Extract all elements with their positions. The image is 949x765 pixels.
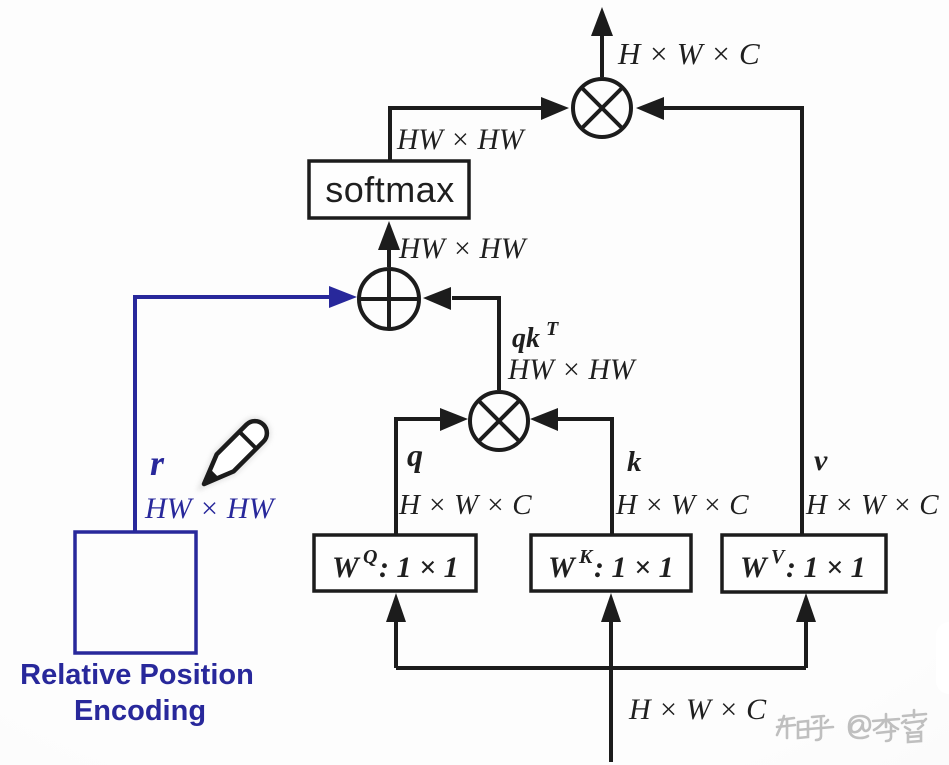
svg-text:: 1 × 1: : 1 × 1 <box>379 551 459 584</box>
wire bottom input trunk <box>609 668 613 762</box>
wire softmax to top multiply <box>390 97 569 162</box>
svg-text:H × W × C: H × W × C <box>617 36 760 71</box>
wire blue from encoding box to plus <box>135 286 357 532</box>
box softmax <box>309 161 469 218</box>
svg-text:r: r <box>150 443 165 483</box>
wire k <box>530 408 612 535</box>
svg-text:softmax: softmax <box>325 169 455 210</box>
li <box>873 714 899 741</box>
wire branch to WQ <box>386 593 406 668</box>
svg-text:qk: qk <box>512 323 540 354</box>
pencil icon <box>196 416 272 492</box>
box WQ <box>314 535 476 591</box>
svg-text:HW × HW: HW × HW <box>396 124 526 156</box>
box WV <box>722 535 886 592</box>
wire q <box>396 408 468 535</box>
box relative position encoding <box>75 532 196 653</box>
wire bottom distribution bar <box>396 666 806 670</box>
svg-text:HW × HW: HW × HW <box>144 492 277 525</box>
hu <box>809 716 833 740</box>
svg-text:v: v <box>814 444 828 477</box>
svg-text:W: W <box>740 551 769 584</box>
scrollbar thumb right edge <box>936 622 949 694</box>
svg-text:W: W <box>548 551 577 584</box>
svg-text:q: q <box>407 437 423 473</box>
wire branch to WK <box>601 593 621 668</box>
wire qk multiply to plus <box>423 287 499 390</box>
svg-text:K: K <box>578 546 594 568</box>
node qk multiply <box>470 392 528 450</box>
svg-text:Encoding: Encoding <box>74 695 206 727</box>
wire v path <box>636 97 802 535</box>
svg-text:k: k <box>627 446 642 478</box>
svg-text:V: V <box>771 546 786 568</box>
zhi <box>777 716 808 738</box>
wire plus to softmax <box>378 221 400 267</box>
svg-text:: 1 × 1: : 1 × 1 <box>594 551 674 584</box>
svg-text:Q: Q <box>363 546 377 568</box>
node plus <box>358 268 420 330</box>
svg-text:T: T <box>546 318 559 340</box>
svg-text:H × W × C: H × W × C <box>805 489 939 521</box>
svg-text:H × W × C: H × W × C <box>628 693 767 726</box>
node top multiply <box>573 79 631 137</box>
box WK <box>531 535 691 591</box>
watermark zhihu <box>777 710 926 742</box>
svg-text:Relative Position: Relative Position <box>20 659 254 691</box>
svg-text:HW × HW: HW × HW <box>507 354 637 386</box>
svg-text:W: W <box>332 551 361 584</box>
at <box>849 716 870 738</box>
svg-text:: 1 × 1: : 1 × 1 <box>786 551 866 584</box>
wire output top <box>591 7 613 77</box>
svg-text:H × W × C: H × W × C <box>615 489 749 521</box>
svg-text:H × W × C: H × W × C <box>398 489 532 521</box>
wire branch to WV <box>796 593 816 668</box>
svg-text:HW × HW: HW × HW <box>398 233 528 265</box>
